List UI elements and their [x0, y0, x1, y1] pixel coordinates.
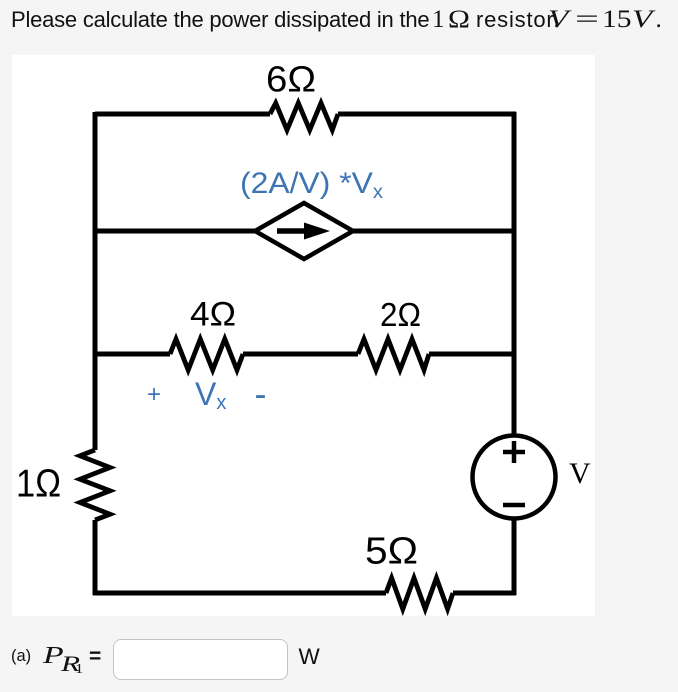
svg-text:+: +: [147, 381, 161, 408]
minus sign: [503, 503, 525, 508]
svg-text:4Ω: 4Ω: [190, 296, 236, 334]
svg-text:Vx: Vx: [195, 376, 226, 414]
unit W: [299, 644, 320, 670]
svg-text:V: V: [569, 457, 591, 490]
svg-text:2Ω: 2Ω: [380, 296, 421, 333]
wire top left segment: [95, 112, 270, 117]
wire row3 right: [429, 352, 516, 357]
dependent current source diamond: [255, 203, 353, 259]
wire row2 left: [95, 229, 255, 234]
wire left vertical upper: [93, 112, 98, 450]
wire right vertical upper: [512, 112, 517, 434]
resistor R 6ohm zigzag: [270, 103, 338, 130]
wire top right segment: [338, 112, 516, 117]
resistor 4ohm zigzag: [170, 339, 243, 370]
wire row3 left: [95, 352, 170, 357]
wire bottom right segment: [453, 591, 516, 596]
wire bottom left segment: [93, 591, 386, 596]
wire left vertical lower: [93, 520, 98, 595]
resistor R1 1ohm vertical zigzag: [80, 450, 110, 520]
svg-text:6Ω: 6Ω: [266, 59, 316, 100]
answer row: [11, 647, 31, 666]
wire right vertical lower: [512, 518, 517, 595]
question text: [11, 7, 429, 33]
svg-text:(2A/V) *Vx: (2A/V) *Vx: [240, 167, 384, 203]
wire row2 right: [353, 229, 516, 234]
wire row3 middle: [243, 352, 358, 357]
voltage source V circle: [473, 436, 556, 519]
white circuit panel: [12, 55, 595, 616]
svg-text:1Ω: 1Ω: [16, 463, 61, 506]
answer input box: [113, 639, 288, 680]
resistor 5ohm zigzag: [386, 578, 453, 609]
arrow inside source: [277, 228, 310, 234]
svg-text:-: -: [255, 373, 267, 414]
svg-text:5Ω: 5Ω: [365, 531, 418, 573]
resistor 2ohm zigzag: [358, 339, 429, 370]
plus sign: [503, 441, 525, 463]
